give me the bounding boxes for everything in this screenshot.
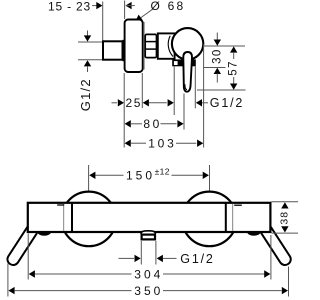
extension line E lever tip (183, 94, 185, 130)
extension line handle tip right (288, 267, 290, 297)
body inner arc (168, 36, 173, 57)
extension line handle tip left (7, 264, 9, 297)
extension line bar right (270, 235, 272, 280)
dimension 25 right arrow joined to outlet left arrow (143, 99, 174, 106)
dimension 150 +-12 (89, 167, 209, 183)
G1/2 ref line top left (78, 41, 103, 43)
left union joint (57, 203, 72, 232)
svg-text:G1/2: G1/2 (210, 96, 244, 110)
extension line circle right (203, 44, 205, 147)
outlet nipple dome (141, 231, 156, 234)
dimension 38 top arrow (281, 202, 288, 208)
right boss under bar (247, 232, 261, 236)
dimension 103 (125, 137, 204, 151)
wall pipe nipple (103, 41, 123, 59)
ref line bar top right (272, 201, 299, 203)
left wall circle (62, 192, 117, 247)
threaded ring (145, 34, 156, 57)
svg-text:25: 25 (126, 96, 143, 110)
G1/2 left bottom arrow (84, 60, 91, 72)
G1/2 left top arrow (84, 31, 91, 42)
ref line middle right (204, 67, 226, 69)
dimension 15-23 left arrow (92, 2, 103, 9)
extension line left circle center (88, 165, 90, 192)
extension line right circle center (209, 165, 211, 193)
extension line D outlet right (194, 67, 196, 109)
extension line C outlet left (173, 67, 175, 116)
G1/2 bottom leader arrow (157, 255, 177, 262)
ref line bottom right (197, 89, 246, 91)
dimension 350 (8, 284, 288, 298)
svg-text:±12: ±12 (155, 167, 170, 177)
extension line A escutcheon left (123, 73, 125, 148)
svg-text:80: 80 (143, 117, 162, 131)
extension line outlet right (155, 241, 157, 265)
svg-text:57: 57 (228, 60, 240, 76)
G1/2 outlet dimension bottom (119, 255, 141, 262)
right wall circle (182, 192, 237, 247)
dimension 57 bottom arrow (230, 77, 237, 90)
escutcheon (side) (125, 20, 143, 73)
left handle (front) (5, 223, 39, 267)
ref line bar bottom right (272, 232, 299, 234)
svg-text:Ø 68: Ø 68 (151, 0, 186, 13)
dimension 57 top arrow (230, 46, 237, 59)
outlet block under body (172, 59, 196, 66)
valve body (158, 33, 175, 58)
outlet nipple (142, 235, 155, 240)
extension line bar left (27, 234, 29, 280)
svg-text:38: 38 (278, 211, 290, 225)
escutcheon shadow line (143, 22, 145, 70)
svg-text:350: 350 (134, 284, 163, 298)
mixer bar body (28, 203, 271, 232)
dimension 15-23 right arrow (125, 2, 134, 9)
svg-text:G1/2: G1/2 (180, 252, 214, 266)
ref line top right (204, 45, 245, 47)
right union joint (226, 203, 242, 232)
G1/2 outlet leader arrow (196, 99, 208, 106)
svg-text:G1/2: G1/2 (78, 78, 93, 111)
dimension 304 (29, 267, 271, 281)
pipe flange (122, 40, 125, 61)
svg-text:103: 103 (148, 137, 176, 151)
right handle (front) (259, 223, 293, 267)
G1/2 ref line bottom left (78, 59, 103, 61)
svg-text:304: 304 (134, 267, 163, 281)
extension line B escutcheon right (141, 73, 143, 108)
extension line pipe end (102, 2, 104, 42)
mixer cartridge circle (172, 28, 203, 59)
dimension 25 left arrow (112, 99, 125, 106)
lever handle (side) (183, 52, 192, 92)
svg-text:30: 30 (212, 48, 224, 64)
svg-text:15 - 23: 15 - 23 (48, 0, 91, 13)
dimension 80 (125, 117, 184, 131)
svg-text:150: 150 (126, 168, 155, 182)
dimension 38 bottom arrow (281, 226, 288, 232)
extension line escutcheon left top (124, 1, 126, 20)
dimension 30 top arrow (214, 33, 221, 46)
dimension 30 bottom arrow (214, 68, 221, 83)
left boss under bar (37, 232, 51, 236)
extension line outlet left (140, 241, 142, 265)
leader arrow diameter 68 (135, 10, 151, 21)
